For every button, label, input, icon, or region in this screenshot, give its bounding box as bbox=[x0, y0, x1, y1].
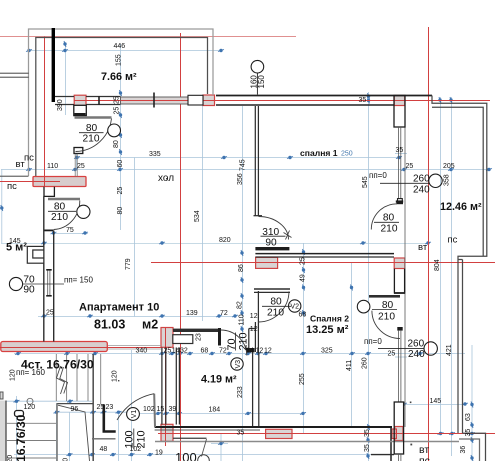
circle 260/240 lower bbox=[424, 342, 437, 355]
svg-text:96: 96 bbox=[71, 406, 79, 413]
door C fraction 80/210 spalnya2 bbox=[267, 297, 284, 319]
dim line spalnya1 335/250 bbox=[77, 157, 399, 159]
vent circle 70/90 left bbox=[9, 277, 22, 290]
svg-text:спалня 1: спалня 1 bbox=[300, 148, 338, 158]
vert dim stairs wall bbox=[103, 412, 105, 421]
svg-text:25: 25 bbox=[117, 187, 124, 195]
masonry pier bathroom lower bbox=[161, 424, 173, 441]
east window lower frame box bbox=[394, 402, 403, 454]
svg-text:25: 25 bbox=[97, 404, 105, 411]
hol west wall box top bbox=[74, 105, 87, 115]
terrace outer parapet line bbox=[29, 29, 214, 176]
circle 260/240 upper bbox=[429, 174, 442, 187]
stair corner box left bbox=[0, 392, 3, 399]
stair small circle marker bbox=[27, 398, 33, 404]
east window lower cap top bbox=[397, 327, 402, 331]
svg-text:35: 35 bbox=[359, 97, 367, 104]
vert dim stairs left bbox=[16, 396, 18, 461]
svg-text:335: 335 bbox=[149, 151, 161, 158]
stair gray strip left edge bbox=[0, 401, 6, 461]
5m2 shaft outer box bbox=[27, 246, 44, 263]
hall north wall end bar bbox=[218, 328, 221, 346]
svg-text:13.25 м²: 13.25 м² bbox=[306, 324, 349, 336]
svg-text:205: 205 bbox=[443, 163, 455, 170]
svg-text:820: 820 bbox=[219, 237, 231, 244]
vert dim right room b 358/421 bbox=[451, 97, 453, 456]
east window upper end cap bbox=[398, 199, 403, 202]
svg-text:240: 240 bbox=[408, 349, 425, 360]
wc toilet circle bbox=[198, 455, 210, 461]
svg-text:15: 15 bbox=[157, 406, 165, 413]
vert dim 745/356/86/82/110 bbox=[242, 106, 244, 461]
svg-text:210: 210 bbox=[381, 224, 398, 235]
svg-text:356: 356 bbox=[237, 173, 244, 185]
vert dim left edge bbox=[1, 170, 3, 244]
dim line 120/96/25/23/102/184 bbox=[2, 400, 93, 402]
svg-text:340: 340 bbox=[136, 348, 148, 355]
svg-text:102: 102 bbox=[130, 446, 142, 453]
svg-text:120: 120 bbox=[9, 369, 16, 381]
wall stub spalnya2 NE bbox=[369, 295, 400, 298]
bathroom east wall double bbox=[175, 348, 177, 425]
masonry pier west window sill bbox=[74, 95, 86, 105]
vert dim stairs 120 bbox=[69, 412, 71, 461]
SE boundary step bbox=[463, 433, 486, 461]
svg-text:90: 90 bbox=[23, 285, 35, 296]
dim line mid 340/25/14/32/68/72/12/325 bbox=[14, 353, 465, 355]
door B arc bbox=[54, 201, 80, 230]
spalnya2 west wall outer step bbox=[249, 329, 256, 349]
hol west column double wall bbox=[43, 196, 45, 341]
svg-text:90: 90 bbox=[265, 238, 277, 249]
svg-text:446: 446 bbox=[114, 43, 126, 50]
small electric dots SE bbox=[410, 402, 412, 404]
svg-text:139: 139 bbox=[186, 310, 198, 317]
svg-text:14: 14 bbox=[246, 348, 254, 355]
svg-text:Спалня 2: Спалня 2 bbox=[310, 314, 349, 324]
svg-text:60: 60 bbox=[117, 160, 124, 168]
masonry pier spalnya2 south bbox=[266, 429, 292, 438]
pink wall strip bottom-left bbox=[1, 342, 108, 352]
svg-text:80: 80 bbox=[270, 297, 282, 308]
stair treads lower flight horizontal bbox=[6, 422, 56, 424]
leader line 70/90 bbox=[23, 283, 64, 285]
red vertical axis x429 bbox=[428, 27, 430, 461]
east window lower frame backfill bbox=[394, 402, 403, 454]
red line pink strip axis y347 bbox=[0, 347, 161, 349]
dim line full width 110/25/205 bbox=[1, 169, 490, 171]
vert dim 25/49/255 spalnya2 bbox=[303, 243, 305, 433]
NE boundary step bbox=[432, 96, 487, 434]
svg-text:25: 25 bbox=[46, 310, 54, 317]
hol south thin wall lines at red axis bbox=[108, 344, 161, 346]
svg-text:35: 35 bbox=[396, 147, 404, 154]
svg-text:14: 14 bbox=[172, 348, 180, 355]
door B circle bbox=[77, 205, 90, 218]
svg-text:39: 39 bbox=[169, 406, 177, 413]
svg-text:23: 23 bbox=[196, 333, 203, 341]
right wall inner line below step bbox=[462, 260, 464, 434]
svg-text:пп=0: пп=0 bbox=[369, 171, 387, 180]
east wall pier below sill box bbox=[394, 269, 404, 294]
svg-text:145: 145 bbox=[430, 398, 442, 405]
svg-text:255: 255 bbox=[299, 373, 306, 385]
window fraction 310/90 bbox=[262, 227, 279, 249]
svg-text:пс: пс bbox=[419, 455, 430, 461]
window fraction 260/240 lower bbox=[408, 339, 426, 361]
svg-text:421: 421 bbox=[446, 344, 453, 356]
hol west wall stub below door bbox=[74, 148, 83, 154]
svg-text:48: 48 bbox=[100, 446, 108, 453]
window fraction 70/90 bbox=[23, 275, 35, 296]
stair wall right gray full height bbox=[92, 354, 94, 461]
stair thin line right bbox=[100, 354, 102, 404]
dim line 35 short (window pier) bbox=[395, 153, 407, 155]
svg-text:81.03 м2: 81.03 м2 bbox=[94, 318, 158, 332]
sink fixture box bbox=[173, 335, 193, 344]
east window upper glazing bbox=[397, 127, 399, 199]
east window upper frame backfill bbox=[394, 96, 405, 128]
NE boundary inner line bbox=[432, 107, 483, 256]
svg-text:23: 23 bbox=[106, 404, 114, 411]
stair break zigzag bbox=[57, 366, 65, 394]
svg-text:75: 75 bbox=[66, 227, 74, 234]
svg-text:80: 80 bbox=[54, 202, 66, 213]
door V1 arc bbox=[117, 394, 154, 420]
pink wall piece hol west bbox=[33, 177, 86, 187]
svg-text:19: 19 bbox=[155, 450, 163, 457]
red vertical axis x180 bbox=[180, 33, 182, 461]
svg-text:68: 68 bbox=[299, 312, 307, 319]
svg-text:пп= 160: пп= 160 bbox=[16, 368, 45, 377]
svg-text:80: 80 bbox=[113, 140, 120, 148]
svg-text:12: 12 bbox=[256, 348, 264, 355]
stair treads upper flight vertical bbox=[55, 354, 57, 401]
dim line door 75 bbox=[53, 233, 88, 235]
svg-text:210: 210 bbox=[378, 312, 395, 323]
vert dim entrance bbox=[118, 413, 120, 461]
svg-text:пс: пс bbox=[448, 235, 458, 246]
vert dim right 63/35/36 bbox=[471, 345, 473, 461]
svg-text:35: 35 bbox=[364, 429, 371, 437]
svg-text:779: 779 bbox=[125, 258, 132, 270]
door A leaf (terrace-hol) bbox=[75, 116, 112, 118]
spalnya1 west wall double bbox=[254, 106, 256, 216]
svg-text:25: 25 bbox=[388, 351, 396, 358]
SE apartment wall stub bbox=[371, 454, 394, 456]
svg-text:184: 184 bbox=[209, 406, 221, 413]
vent fraction 160/150 rotated bbox=[249, 75, 266, 89]
stair lower gray step bbox=[92, 438, 116, 440]
svg-text:12: 12 bbox=[264, 348, 272, 355]
masonry pier bathroom upper bbox=[161, 328, 173, 348]
svg-text:V2: V2 bbox=[290, 304, 299, 311]
wc door lower wall line bbox=[173, 437, 207, 439]
door E fraction 80/210 top right bbox=[381, 213, 398, 235]
thick black column bar top-left bbox=[52, 28, 55, 102]
svg-text:пп=0: пп=0 bbox=[364, 337, 382, 346]
svg-text:25: 25 bbox=[114, 107, 121, 115]
masonry sill east wall middle bbox=[394, 258, 405, 269]
window band white box x188-203 bbox=[188, 95, 203, 105]
spalnya2 west wall lower double bbox=[252, 352, 254, 427]
svg-text:260: 260 bbox=[361, 357, 368, 369]
svg-text:86: 86 bbox=[238, 264, 245, 272]
door B fraction 80/210 bbox=[51, 202, 68, 224]
5m2 shaft inner box bbox=[33, 250, 44, 258]
dim line short right of window bbox=[395, 356, 407, 358]
svg-text:V3: V3 bbox=[235, 360, 242, 369]
east window lower glazing bbox=[398, 331, 400, 402]
svg-text:пс: пс bbox=[24, 153, 34, 164]
svg-text:745: 745 bbox=[240, 159, 247, 171]
window band gray strip x120-188 bbox=[121, 97, 189, 104]
hall north wall band bbox=[173, 329, 220, 332]
red line bottom axis y433 bbox=[158, 433, 495, 435]
svg-text:V1: V1 bbox=[131, 410, 138, 419]
hol west wall thin double to pink strip bbox=[74, 154, 76, 177]
door B leaf (hol west lower) bbox=[48, 198, 80, 200]
svg-text:25: 25 bbox=[299, 257, 306, 265]
niche stub wall spalnya2 bbox=[254, 288, 290, 290]
svg-text:32: 32 bbox=[180, 348, 188, 355]
svg-text:210: 210 bbox=[83, 134, 100, 145]
door V1 leaf (entrance) bbox=[153, 394, 156, 427]
svg-text:72: 72 bbox=[220, 310, 228, 317]
svg-text:63: 63 bbox=[465, 413, 472, 421]
door V2 arc bbox=[258, 291, 289, 322]
window band west top (bar to sill box) bbox=[55, 96, 74, 98]
svg-text:150: 150 bbox=[257, 75, 266, 89]
svg-text:155: 155 bbox=[115, 54, 122, 66]
stair flight box top edge bbox=[57, 403, 93, 405]
black bar below door310 bbox=[255, 247, 289, 250]
svg-text:358: 358 bbox=[444, 174, 451, 186]
vert dim 390 terrace bbox=[65, 44, 67, 115]
vert dim 534 bbox=[202, 106, 204, 321]
divider wall spalnya1/2 double bbox=[255, 253, 394, 255]
vert dim V1 door bbox=[131, 350, 133, 461]
neighbour wall stub left y75 bbox=[0, 72, 29, 74]
svg-text:35: 35 bbox=[237, 430, 245, 437]
vert dim 260/35/35 bbox=[368, 92, 370, 461]
door V2 circle bbox=[289, 300, 301, 312]
vert dim 155/25/25/80 window west bbox=[120, 44, 122, 230]
window band red centerline bbox=[121, 100, 189, 102]
red line left pc y181 bbox=[0, 181, 60, 183]
door A arc bbox=[76, 119, 112, 152]
svg-text:240: 240 bbox=[413, 185, 430, 196]
stair flight box left edge bbox=[56, 404, 58, 461]
door 310/90 arc spalnya1 bbox=[259, 217, 289, 240]
dim line 145 window bottom bbox=[404, 404, 465, 406]
svg-text:12.46 м²: 12.46 м² bbox=[440, 201, 482, 213]
dim line top width (terrace) bbox=[29, 50, 221, 52]
masonry sill east wall lower bbox=[395, 427, 403, 441]
svg-text:хол: хол bbox=[158, 173, 174, 184]
svg-text:вт: вт bbox=[418, 242, 428, 253]
svg-text:80: 80 bbox=[383, 213, 395, 224]
door 310/90 end tick bbox=[284, 231, 292, 240]
svg-text:пп= 150: пп= 150 bbox=[64, 276, 93, 285]
red vertical axis x45 bbox=[44, 37, 46, 188]
spalnya1 west wall cap bbox=[254, 215, 263, 217]
door 80/210 east arc bbox=[372, 311, 400, 339]
vert dim hol door bbox=[76, 153, 78, 170]
svg-text:пс: пс bbox=[7, 181, 17, 192]
vent circle 160/150 on top wall bbox=[251, 60, 264, 73]
svg-text:4.19 м²: 4.19 м² bbox=[201, 374, 237, 386]
svg-text:390: 390 bbox=[57, 99, 64, 111]
door D fraction 80/210 east bbox=[378, 300, 395, 323]
svg-text:110: 110 bbox=[47, 163, 58, 170]
svg-text:35: 35 bbox=[364, 444, 371, 452]
door 12.46 north arc bbox=[371, 204, 397, 230]
svg-text:35: 35 bbox=[465, 429, 472, 437]
gray axis line bottom bbox=[155, 441, 459, 443]
vert dim stairs mid bbox=[56, 403, 58, 461]
svg-text:25: 25 bbox=[77, 163, 85, 170]
bathroom west wall double bbox=[161, 348, 163, 425]
entrance fraction 100/210 rotated bbox=[123, 430, 147, 448]
svg-text:411: 411 bbox=[346, 360, 353, 371]
spalnya1 north wall outer line bbox=[216, 95, 432, 97]
svg-text:250: 250 bbox=[341, 151, 353, 158]
window fraction 260/240 upper bbox=[413, 174, 430, 196]
svg-text:80: 80 bbox=[117, 207, 124, 215]
masonry pier spalnya1 west niche bbox=[256, 257, 278, 268]
east window upper frame box bbox=[394, 96, 405, 128]
dim line bottom 48/102 bbox=[14, 454, 380, 456]
stair door-stop symbol bbox=[15, 411, 24, 417]
door V3 circle bbox=[231, 358, 243, 370]
svg-text:120: 120 bbox=[111, 370, 118, 382]
svg-text:25: 25 bbox=[406, 163, 414, 170]
svg-text:210: 210 bbox=[267, 308, 284, 319]
masonry pier SE corner red bbox=[392, 429, 397, 439]
vent stem on north wall bbox=[256, 73, 258, 95]
svg-text:120: 120 bbox=[7, 455, 14, 461]
dim line 145/820 bbox=[1, 243, 429, 245]
red line wall axis horizontal y100 bbox=[74, 100, 490, 102]
masonry sill east wall upper bbox=[394, 96, 405, 106]
spalnya2 vent circle east bbox=[357, 300, 370, 313]
red line axis y262 bbox=[151, 262, 495, 264]
svg-text:102: 102 bbox=[143, 406, 155, 413]
svg-text:68: 68 bbox=[201, 348, 209, 355]
svg-text:49: 49 bbox=[299, 274, 306, 282]
spalnya2 south wall inner line hall part bbox=[155, 429, 260, 431]
notch below pink block bbox=[44, 187, 54, 197]
svg-text:120: 120 bbox=[24, 404, 36, 411]
spalnya2 west wall upper bbox=[255, 291, 258, 352]
door jamb cap hall/spalnya2 bbox=[247, 348, 255, 352]
dim line 25/139/72 bbox=[38, 316, 235, 318]
stair wall black L bbox=[104, 404, 116, 431]
svg-text:110: 110 bbox=[238, 314, 245, 325]
svg-text:210: 210 bbox=[51, 212, 68, 223]
wc door leaf curve bbox=[202, 439, 207, 457]
svg-text:325: 325 bbox=[321, 348, 333, 355]
svg-text:100: 100 bbox=[175, 450, 197, 461]
svg-text:545: 545 bbox=[362, 176, 369, 188]
spalnya2 south wall bbox=[155, 426, 392, 428]
svg-text:12: 12 bbox=[250, 313, 258, 320]
svg-text:25: 25 bbox=[114, 96, 121, 104]
door A circle bbox=[108, 124, 121, 137]
door 12.46 north foot bbox=[396, 200, 403, 202]
neighbour wall stub left y176 bbox=[0, 175, 29, 177]
window band mullion tick x99 bbox=[98, 96, 100, 105]
svg-text:233: 233 bbox=[237, 386, 244, 398]
stair knee rail line bbox=[58, 405, 90, 461]
east wall face line bbox=[404, 106, 406, 427]
SE corner vertical wall bbox=[390, 428, 392, 461]
vert dim right room a bbox=[440, 97, 442, 433]
svg-text:804: 804 bbox=[434, 259, 441, 271]
svg-text:16.76/30: 16.76/30 bbox=[14, 414, 28, 461]
vert dim 411 bbox=[351, 263, 353, 427]
window band double line x86-120 bbox=[86, 96, 121, 98]
svg-text:145: 145 bbox=[9, 238, 21, 245]
door V1 circle bbox=[127, 408, 140, 421]
svg-text:12: 12 bbox=[250, 326, 258, 333]
svg-text:25: 25 bbox=[164, 348, 172, 355]
svg-text:534: 534 bbox=[194, 210, 201, 222]
svg-text:7.66 м²: 7.66 м² bbox=[101, 71, 137, 83]
hall door fraction 70/210 rotated bbox=[226, 332, 250, 350]
red vertical axis x165 bbox=[165, 327, 167, 446]
window in west column bbox=[47, 271, 49, 296]
red line top horizontal bbox=[0, 36, 296, 38]
masonry pier terrace east sill bbox=[203, 95, 215, 106]
svg-text:72: 72 bbox=[219, 348, 227, 355]
svg-text:Апартамент 10: Апартамент 10 bbox=[79, 302, 159, 314]
east window glazing below box bbox=[398, 454, 400, 461]
terrace inner wall line bbox=[36, 38, 208, 177]
svg-text:260: 260 bbox=[408, 339, 425, 350]
spalnya1 north wall inner line bbox=[216, 104, 394, 106]
vert dim hol 335 helper bbox=[134, 158, 136, 317]
door A fraction 80/210 bbox=[83, 123, 100, 145]
svg-text:82: 82 bbox=[236, 301, 243, 309]
svg-text:36: 36 bbox=[460, 446, 467, 454]
door B bottom tick bbox=[44, 229, 54, 231]
door 70/210 hall arc bbox=[221, 330, 247, 356]
svg-text:вт: вт bbox=[16, 159, 26, 170]
window band mullion tick x154 bbox=[153, 93, 155, 108]
vert dim door75 bbox=[53, 233, 55, 246]
